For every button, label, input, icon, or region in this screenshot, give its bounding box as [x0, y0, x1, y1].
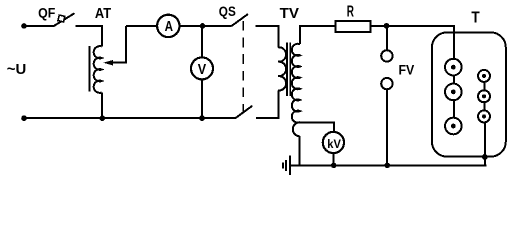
test object earth terminal 2	[478, 90, 490, 102]
wire QF left	[24, 25, 53, 27]
wire QS top fixed to TV primary	[255, 26, 278, 47]
transformer TV measuring winding	[293, 122, 300, 136]
wire QF to AT	[76, 26, 102, 47]
svg-text:~U: ~U	[7, 62, 27, 78]
svg-text:TV: TV	[280, 6, 299, 22]
wire AT bottom to rail	[101, 93, 103, 119]
bottom rail wire	[24, 117, 235, 119]
circuit breaker QF square	[58, 15, 65, 22]
switch QS bottom blade	[235, 106, 252, 118]
wire node to T	[387, 26, 455, 59]
test object terminal 2	[445, 84, 462, 101]
svg-text:T: T	[471, 10, 480, 27]
ammeter A	[157, 15, 179, 37]
junction dot kV ground	[331, 163, 337, 169]
test object terminal 3	[445, 118, 462, 135]
wire TV primary bottom to QS bottom fixed	[256, 91, 278, 119]
autotransformer AT core	[89, 46, 91, 92]
svg-text:R: R	[347, 4, 354, 21]
ground symbol	[283, 155, 290, 175]
svg-text:A: A	[165, 19, 174, 35]
wire earth terminal 2 to 3	[483, 102, 485, 110]
wire kV to ground bus	[332, 153, 334, 165]
test object earth terminal 1	[478, 70, 490, 82]
junction dot node top	[200, 23, 206, 29]
transformer TV primary winding	[278, 47, 286, 90]
wire arrow to ammeter	[126, 25, 157, 27]
svg-text:AT: AT	[95, 6, 111, 22]
junction dot box bottom	[482, 154, 488, 160]
test object T box	[432, 32, 506, 156]
kilovoltmeter kV	[323, 132, 344, 153]
sphere gap FV bottom sphere	[381, 78, 392, 89]
wire TV secondary bottom to ground bus	[299, 136, 301, 165]
resistor R	[336, 21, 371, 32]
test object earth terminal 3	[478, 110, 490, 122]
svg-text:FV: FV	[399, 61, 415, 77]
wire voltmeter to bottom rail	[201, 79, 203, 118]
wire ammeter to node	[180, 25, 203, 27]
transformer TV secondary winding	[292, 44, 300, 123]
wire node to QS	[203, 25, 232, 27]
AT wiper arrow	[103, 26, 126, 66]
svg-text:V: V	[198, 62, 207, 78]
svg-text:kV: kV	[327, 137, 341, 151]
wire TV secondary top to R	[300, 26, 336, 44]
wire terminal 2 to 3	[453, 100, 455, 118]
junction dot AT bottom	[100, 115, 106, 121]
wire earth terminal 1 to 2	[483, 82, 485, 90]
svg-text:QS: QS	[219, 4, 236, 19]
test object terminal 1	[445, 59, 462, 76]
wire node to voltmeter	[201, 26, 203, 58]
autotransformer AT winding	[94, 46, 102, 93]
sphere gap FV top sphere	[381, 50, 392, 61]
wire FV to ground bus	[386, 89, 388, 165]
svg-text:QF: QF	[38, 5, 56, 21]
transformer TV core	[287, 43, 290, 97]
wire terminal 1 to 2	[453, 75, 455, 83]
ground bus wire	[290, 164, 486, 166]
supply terminal dot top	[21, 23, 27, 29]
supply terminal dot bottom	[21, 115, 27, 121]
switch QS link dashed	[242, 21, 244, 114]
voltmeter V	[191, 57, 213, 79]
wire earth terminals to ground bus	[484, 122, 486, 165]
junction dot R node	[384, 23, 390, 29]
circuit breaker QF blade	[53, 13, 75, 26]
junction dot bottom rail	[199, 115, 205, 121]
switch QS top blade	[232, 14, 249, 26]
wire node to sphere gap	[386, 26, 388, 50]
wire kV tap	[300, 122, 334, 132]
junction dot FV ground	[385, 163, 391, 169]
wire R to node	[370, 25, 386, 27]
